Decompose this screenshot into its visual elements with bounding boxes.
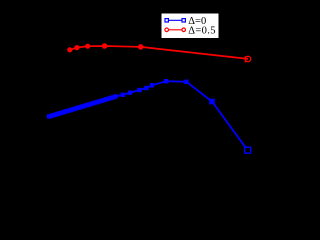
legend box bbox=[161, 13, 219, 39]
legend blue line bbox=[167, 19, 184, 21]
legend blue open squares bbox=[165, 19, 168, 22]
svg-text:Δ=0.5: Δ=0.5 bbox=[188, 26, 216, 37]
blue filled square markers bbox=[47, 79, 215, 119]
blue open square marker (extrapolated point) bbox=[245, 147, 251, 153]
red filled circle markers bbox=[67, 43, 143, 52]
legend red line bbox=[167, 29, 184, 31]
red open circle marker (extrapolated point) bbox=[245, 56, 250, 61]
legend red open circles bbox=[165, 28, 169, 32]
red curve line (Delta=0.5) bbox=[70, 46, 248, 59]
blue curve line (Delta=0) bbox=[49, 81, 248, 150]
red error bar at extrapolated point bbox=[244, 56, 246, 62]
